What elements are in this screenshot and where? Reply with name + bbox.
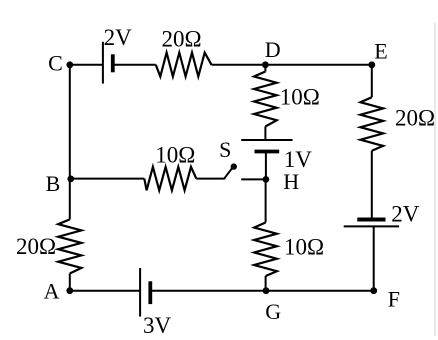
wire H down to resistor R6 [265, 179, 267, 222]
node H [263, 176, 270, 183]
resistor R6 10ohm bottom [254, 223, 277, 277]
svg-text:F: F [388, 287, 400, 312]
wire battery 3V to G to F [151, 290, 374, 292]
battery B2 3V plate short [148, 281, 152, 304]
wire D down to resistor R4 [264, 65, 266, 72]
border scroll line [434, 23, 436, 336]
svg-text:10Ω: 10Ω [280, 84, 320, 109]
battery B4 1V plate long [241, 139, 292, 141]
svg-text:G: G [265, 299, 281, 324]
svg-text:20Ω: 20Ω [395, 106, 435, 131]
node E [368, 61, 375, 68]
resistor R1 20ohm top [156, 53, 212, 77]
resistor R4 10ohm middle top [254, 72, 277, 127]
node D [262, 61, 269, 68]
resistor R5 10ohm middle row [144, 167, 196, 190]
switch S contact dot [231, 163, 237, 169]
wire C to battery 2V [70, 64, 103, 66]
svg-text:C: C [48, 51, 63, 76]
node B [67, 176, 74, 183]
svg-text:2V: 2V [104, 25, 133, 50]
svg-text:20Ω: 20Ω [162, 27, 202, 52]
switch S blade [224, 168, 232, 179]
svg-text:10Ω: 10Ω [155, 142, 195, 167]
svg-text:B: B [46, 171, 61, 196]
wire B to resistor R5 [70, 178, 145, 180]
battery B4 1V plate short [255, 150, 280, 154]
resistor R2 20ohm left [58, 219, 81, 273]
svg-text:E: E [374, 39, 387, 64]
wire battery 1V to H [265, 152, 267, 180]
wire battery 2V right to F [373, 226, 375, 290]
svg-text:S: S [219, 137, 231, 162]
wire battery 2V to resistor R1 [113, 64, 156, 66]
svg-text:D: D [265, 37, 281, 62]
wire C down to B [69, 65, 71, 220]
svg-text:20Ω: 20Ω [16, 234, 56, 259]
wire resistor R3 to battery 2V right [371, 151, 373, 220]
node A [66, 287, 73, 294]
wire resistor R5 to switch [196, 178, 225, 180]
wire A to battery 3V [70, 290, 140, 292]
battery B1 2V plate short [111, 54, 115, 72]
node G [263, 287, 270, 294]
svg-text:H: H [283, 169, 299, 194]
wire switch to H [241, 178, 266, 180]
svg-text:3V: 3V [143, 313, 172, 338]
wire resistor R1 to D to E [212, 64, 372, 66]
node C [66, 61, 73, 68]
svg-text:2V: 2V [391, 202, 420, 227]
resistor R3 20ohm right [360, 97, 383, 151]
battery B1 2V plate long [102, 42, 104, 84]
node F [370, 287, 377, 294]
wire resistor R6 to G [265, 276, 267, 291]
svg-text:10Ω: 10Ω [284, 235, 324, 260]
battery B3 2V plate short [357, 218, 385, 222]
wire resistor R4 to battery 1V [264, 127, 266, 141]
wire resistor R2 to A [69, 274, 71, 291]
wire E down to resistor R3 [371, 65, 373, 97]
battery B2 3V plate long [139, 268, 141, 317]
battery B3 2V plate long [344, 225, 399, 227]
svg-text:A: A [44, 279, 60, 304]
